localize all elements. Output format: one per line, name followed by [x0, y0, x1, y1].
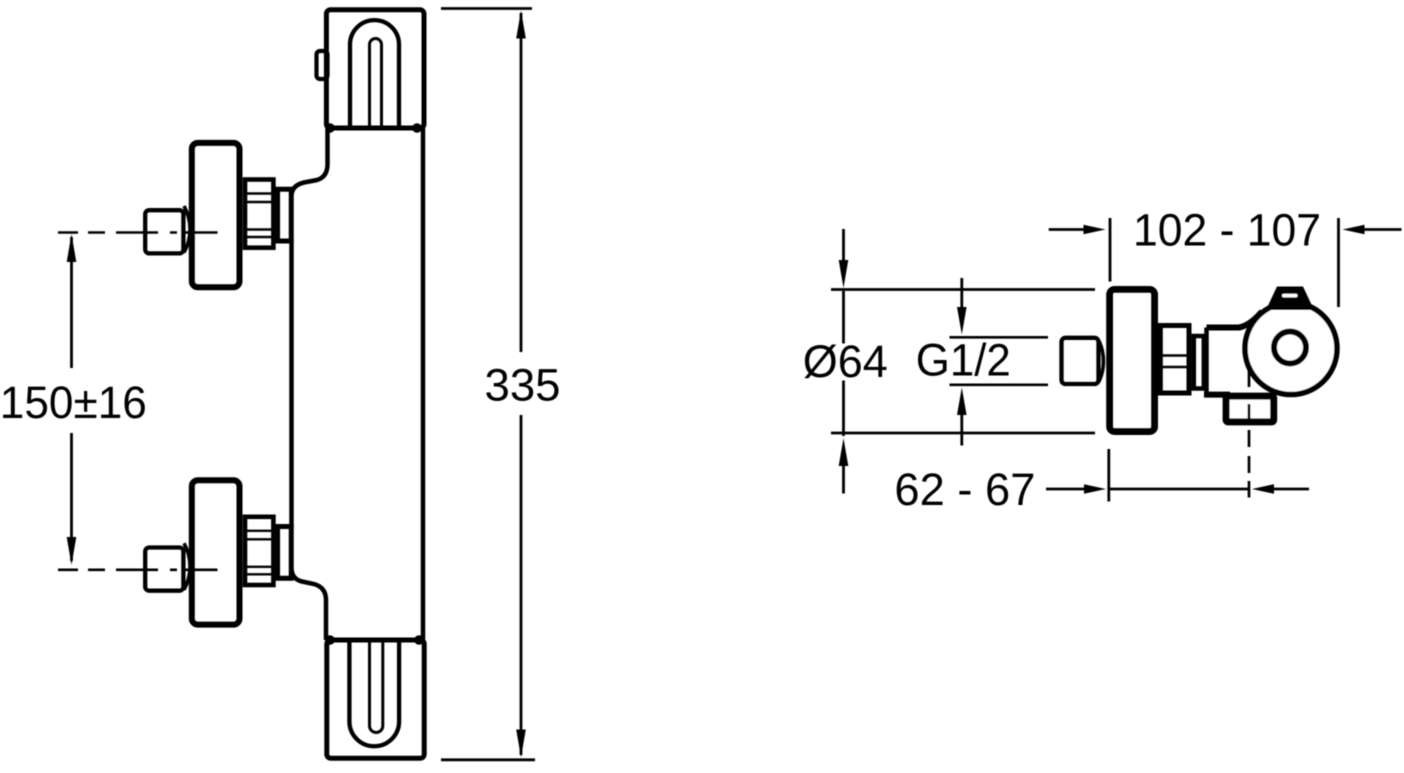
dim 150±16 line lower segment [70, 433, 73, 561]
dim Ø64 extension bottom [831, 432, 1095, 435]
thread line 4 [246, 236, 274, 238]
dim Ø64 mid segment [842, 291, 845, 344]
thread bush side view [1160, 326, 1189, 394]
dim 62-67 line [1110, 488, 1249, 491]
collar tick bottom [276, 239, 294, 244]
flange (escutcheon side) [1110, 289, 1155, 431]
body top edge and shoulder to knob [1207, 312, 1263, 328]
svg-text:335: 335 [485, 360, 561, 411]
wall nipple rect [1062, 338, 1099, 384]
thread line 3 [246, 228, 274, 230]
dim 102-107 left arrow [1084, 225, 1106, 235]
svg-text:150±16: 150±16 [0, 377, 147, 428]
body collar [278, 189, 291, 241]
outlet centerline dashes [1248, 370, 1251, 498]
knob inner circle [1274, 332, 1306, 364]
svg-text:G1/2: G1/2 [916, 335, 1011, 386]
svg-text:102 - 107: 102 - 107 [1133, 205, 1321, 256]
dim 62-67 left tail [1046, 488, 1084, 491]
bottom cap outline [327, 640, 424, 758]
knob tab slit [1282, 294, 1298, 298]
body bottom edge [1204, 392, 1230, 398]
ring collar [1194, 336, 1204, 389]
dim 150±16 extension arrow top [67, 234, 77, 262]
collar tick top [276, 187, 294, 192]
junction dot bottom cap right [414, 635, 424, 645]
dim 62-67 left arrow [1084, 484, 1106, 494]
thread line a [1161, 354, 1189, 356]
junction dot top cap left [325, 123, 335, 133]
dim 102-107 right arrow [1343, 225, 1365, 235]
dim Ø64 bottom tail [842, 464, 845, 494]
dim 102-107 left tail [1049, 228, 1084, 231]
dim G1/2 extension top [950, 336, 1049, 339]
handle slot bottom [370, 640, 383, 733]
dim 102-107 left extension line [1109, 218, 1112, 282]
thread bush [245, 180, 273, 248]
knob top tab [1266, 287, 1314, 311]
dim 102-107 right tail [1364, 228, 1402, 231]
body left edge [1204, 328, 1209, 395]
dim 102-107 right extension line [1337, 218, 1340, 307]
top cap outline [326, 10, 424, 128]
inlet centerline [58, 231, 218, 234]
dim 62-67 right tail [1274, 488, 1309, 491]
dim Ø64 top tail [842, 229, 845, 261]
top supply valve group [58, 143, 294, 287]
cap clip tab [317, 51, 328, 79]
handle slot top [370, 39, 382, 129]
junction dot top cap right [412, 123, 422, 133]
dim G1/2 bottom arrow [957, 388, 967, 416]
dim 62-67 right arrow [1252, 484, 1274, 494]
thread line b [1161, 366, 1189, 368]
dim 150±16 arrow bottom [67, 537, 77, 565]
bottom supply valve group (translated copy) [58, 480, 294, 624]
union cone arc [184, 206, 190, 253]
dim G1/2 top tail [960, 278, 963, 308]
outlet box [1226, 396, 1274, 422]
top cap separator line [326, 126, 424, 130]
dim 335 line upper segment [520, 13, 523, 352]
dim G1/2 top arrow [957, 307, 967, 335]
body left edge with S-bends [292, 128, 328, 640]
handle arch top [350, 20, 399, 128]
junction dot bottom cap left [325, 635, 335, 645]
svg-text:62 - 67: 62 - 67 [894, 464, 1035, 515]
dim Ø64 extension top [831, 288, 1095, 291]
thread line 1 [246, 192, 274, 194]
dim 335 extension line bottom [441, 758, 535, 761]
svg-text:Ø64: Ø64 [803, 336, 888, 387]
dim G1/2 bottom tail [960, 414, 963, 446]
handle arch bottom [349, 640, 399, 747]
union nut [145, 210, 183, 253]
dim 335 arrow top [516, 11, 526, 39]
dim 62-67 extension line [1107, 449, 1110, 502]
body right edge [421, 128, 426, 640]
dim Ø64 lower segment [842, 381, 845, 437]
bottom cap separator line [326, 638, 424, 642]
dim 335 extension line top [441, 7, 532, 10]
dim 335 arrow bottom [516, 730, 526, 758]
escutcheon plate (side) [192, 143, 240, 287]
wall nipple cone arc [1099, 341, 1103, 382]
dim G1/2 extension bottom [950, 383, 1049, 386]
thread line 2 [246, 201, 274, 203]
dim 150±16 line upper segment [70, 237, 73, 368]
dim Ø64 top arrow [839, 260, 849, 288]
dim 335 line lower segment [520, 415, 523, 755]
dim Ø64 bottom arrow [839, 438, 849, 466]
knob circle [1245, 303, 1337, 395]
